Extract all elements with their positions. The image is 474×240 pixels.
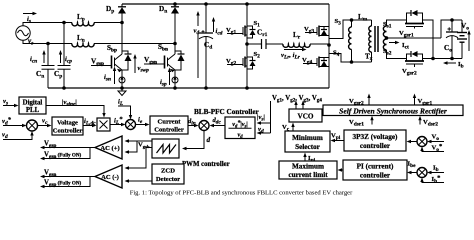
svg-text:Vdsr2: Vdsr2 — [423, 119, 438, 128]
svg-text:icd: icd — [216, 28, 223, 37]
capacitor Cr1 — [262, 39, 267, 49]
block PI current controller — [343, 160, 407, 180]
label Voltage Controller — [53, 120, 83, 135]
capacitor Co — [446, 20, 458, 59]
summer vd — [27, 120, 38, 131]
capacitor Cn — [42, 44, 55, 89]
svg-text:S1: S1 — [254, 20, 261, 29]
arrow vLr iLr — [284, 48, 307, 51]
summer Ib — [417, 168, 427, 178]
wire bridge leg A — [246, 4, 248, 88]
svg-text:|vsine|: |vsine| — [62, 99, 77, 108]
arrow vswp — [133, 54, 136, 73]
svg-text:Vo: Vo — [432, 134, 440, 143]
svg-text:controller: controller — [360, 142, 391, 150]
transistor S3 (MOSFET) — [305, 26, 329, 37]
junction dots output — [431, 18, 454, 60]
svg-text:vs: vs — [28, 37, 33, 47]
arrow 3P3Z to MinSel — [331, 139, 345, 143]
label Current Controller — [154, 119, 184, 134]
arrow Vgsr1 up — [413, 94, 416, 105]
arrow Ict — [389, 41, 400, 45]
diode S3 body — [321, 27, 327, 36]
wire Cr1 to Lr — [266, 43, 283, 45]
arrow Vdsr2 into SDSR — [418, 116, 421, 125]
transistor S1 (MOSFET) — [227, 26, 247, 37]
svg-text:Lp: Lp — [77, 13, 85, 23]
wire AC plus out Vgsn fully on — [40, 148, 90, 161]
block feedforward divider — [225, 117, 255, 139]
svg-text:vd: vd — [194, 28, 200, 37]
svg-text:Detector: Detector — [156, 176, 180, 183]
transformer Tx primary — [369, 20, 372, 62]
svg-text:Ln: Ln — [77, 34, 85, 44]
svg-text:3P3Z (voltage): 3P3Z (voltage) — [353, 133, 399, 141]
svg-text:Co: Co — [444, 44, 452, 54]
arrow Vdsr1 into SDSR — [370, 116, 373, 125]
transistor S2 (MOSFET) — [227, 57, 247, 68]
arrow is — [23, 12, 37, 16]
svg-text:AC (+): AC (+) — [100, 145, 119, 152]
ground — [118, 86, 126, 95]
svg-text:BLB-PFC Controller: BLB-PFC Controller — [194, 108, 260, 116]
transistor Sbn (IGBT) — [165, 51, 176, 77]
svg-text:Sbp: Sbp — [107, 44, 117, 54]
label divider fraction — [229, 119, 252, 140]
svg-text:S2: S2 — [254, 51, 261, 60]
wire primary bottom link — [329, 54, 372, 63]
bottom DC rail — [48, 87, 329, 89]
wire gate Sbp — [91, 65, 112, 67]
svg-text:current limit: current limit — [288, 171, 328, 179]
inductor Lp — [72, 23, 94, 26]
summer d — [199, 121, 209, 131]
svg-text:Vg1: Vg1 — [226, 27, 236, 36]
node midpoint A dot — [245, 42, 249, 46]
inductor Ln — [72, 44, 94, 47]
arrows VCO outputs — [294, 101, 304, 109]
comparator AC minus — [95, 165, 122, 188]
diode Sbp body — [122, 51, 132, 70]
svg-text:isp: isp — [160, 79, 167, 88]
wire d to PWM — [182, 131, 204, 151]
wire center tap riser to plus rail — [441, 20, 462, 38]
svg-text:Cp: Cp — [54, 70, 62, 80]
label Minimum Selector — [292, 134, 323, 151]
wire secondary bottom tap — [387, 50, 407, 59]
svg-text:Ibe: Ibe — [408, 161, 417, 170]
arrow Ib fb — [427, 171, 444, 175]
diode Ss2 body — [407, 51, 423, 59]
svg-text:Vg3: Vg3 — [304, 26, 314, 35]
arrow iL ref — [110, 123, 126, 127]
transistor Sbp (IGBT) — [112, 51, 123, 77]
svg-text:Lr: Lr — [293, 31, 301, 41]
svg-text:Vg2: Vg2 — [226, 58, 236, 67]
arrow summer to 3P3Z — [407, 140, 418, 144]
svg-text:Ib: Ib — [433, 165, 439, 174]
svg-text:Minimum: Minimum — [292, 134, 323, 142]
svg-text:d: d — [207, 136, 211, 144]
block Digital PLL — [19, 97, 46, 114]
arrow Vgsr2 up — [367, 94, 370, 105]
transistor Ss2 (sync MOSFET) — [405, 59, 424, 68]
wire primary top link — [329, 20, 372, 39]
wire AC minus out Vgsp fully on — [40, 177, 90, 189]
svg-text:is: is — [27, 16, 31, 25]
svg-text:Current: Current — [158, 119, 182, 126]
block 3P3Z voltage controller — [344, 130, 406, 151]
svg-text:Fig. 1: Topology of PFC-BLB an: Fig. 1: Topology of PFC-BLB and synchron… — [130, 190, 353, 197]
svg-text:Lm: Lm — [358, 13, 368, 23]
arrow ddc — [210, 124, 225, 128]
wire secondary bottom rail — [423, 58, 463, 60]
wire ZCD out to AC minus — [125, 179, 153, 183]
wire center tap — [387, 37, 442, 39]
svg-text:Vg4: Vg4 — [302, 57, 312, 66]
svg-text:Vg1, Vg2, Vg3, Vg4: Vg1, Vg2, Vg3, Vg4 — [272, 95, 322, 104]
wire PWM out to AC plus — [125, 139, 153, 154]
block VCO — [289, 109, 322, 122]
diode S1 body — [247, 26, 256, 38]
wire node P down to Sbp — [121, 23, 123, 52]
wire row2 after Ln to node N — [94, 43, 175, 45]
svg-text:vLr, iLr: vLr, iLr — [281, 52, 301, 61]
label Co plus — [448, 27, 451, 30]
svg-text:Cr1: Cr1 — [257, 29, 268, 39]
wire vd fb — [3, 131, 34, 140]
summer Vo — [417, 137, 427, 147]
block Current Controller — [150, 116, 188, 134]
svg-text:icn: icn — [30, 56, 37, 65]
transformer Tx core — [375, 26, 378, 52]
top DC rail — [122, 3, 329, 5]
arrow icp — [59, 50, 62, 63]
arrow PI to Max — [338, 168, 344, 172]
arrow vc — [38, 124, 52, 128]
node A junction dot — [62, 21, 66, 25]
comparator AC plus — [95, 136, 122, 159]
node P junction dot — [120, 21, 124, 25]
svg-text:Dn: Dn — [159, 5, 167, 15]
arrow Max to MinSel — [303, 153, 306, 161]
arrow vd ref — [3, 124, 27, 128]
svg-text:S3: S3 — [335, 18, 342, 27]
arrow vd — [196, 11, 199, 78]
arrow ie — [136, 123, 150, 127]
wire Lr to midpoint B — [310, 43, 329, 45]
svg-text:Self Driven Synchronous Rectif: Self Driven Synchronous Rectifier — [339, 106, 448, 115]
wire iL fb — [118, 106, 132, 120]
arrow isp — [168, 68, 171, 86]
node N junction dot — [173, 42, 177, 46]
wire Ib ref — [420, 178, 444, 183]
label ZCD Detector — [156, 168, 180, 184]
wire bridge leg B — [328, 4, 330, 88]
label 3P3Z controller — [353, 133, 399, 150]
wire AC plus out Vgsp — [40, 146, 95, 150]
wire PLL to multiplier — [46, 106, 106, 118]
node midpoint B dot — [327, 43, 331, 47]
current sensor isn — [119, 76, 125, 88]
inductor Lr — [283, 44, 310, 47]
inductor Lm — [349, 20, 352, 62]
svg-text:Ict: Ict — [402, 42, 409, 51]
transformer Tx secondary — [383, 26, 386, 50]
svg-text:vd: vd — [2, 132, 8, 141]
wire source top to row1 — [23, 23, 72, 26]
diode S2 body — [247, 57, 256, 69]
transistor S4 (MOSFET) — [303, 57, 329, 68]
svg-text:PLL: PLL — [26, 107, 40, 114]
svg-text:ie: ie — [138, 117, 143, 126]
diode Dn — [171, 4, 179, 44]
wire source bottom to row2 — [23, 40, 72, 43]
wire Vo ref — [420, 147, 444, 152]
junction dots Lm — [350, 18, 354, 64]
svg-text:Controller: Controller — [53, 128, 83, 135]
junction dots bottom rail — [62, 86, 249, 90]
svg-text:Cd: Cd — [204, 41, 212, 51]
wire PWM out2 to AC minus — [125, 148, 153, 170]
block Maximum current limit — [279, 161, 337, 179]
diode Ss1 body — [407, 10, 423, 20]
svg-text:AC (-): AC (-) — [101, 174, 119, 181]
transistor Ss1 (sync MOSFET) — [405, 20, 424, 29]
arrow iLdc — [83, 124, 97, 128]
svg-text:ZCD: ZCD — [161, 168, 175, 175]
svg-text:Ss2: Ss2 — [383, 48, 392, 57]
multiplier block — [97, 118, 110, 131]
svg-text:Controller: Controller — [154, 127, 184, 134]
wire midpoint A to Cr1 — [247, 43, 262, 45]
svg-text:PWM controller: PWM controller — [182, 161, 230, 168]
summer iL — [126, 120, 136, 130]
svg-text:Maximum: Maximum — [292, 163, 324, 171]
svg-text:icp: icp — [65, 56, 72, 65]
svg-text:isn: isn — [104, 74, 111, 83]
svg-text:Ib: Ib — [458, 61, 464, 70]
svg-text:controller: controller — [360, 172, 391, 180]
block PWM comparator — [152, 139, 179, 158]
wire gate Sbn — [144, 63, 165, 65]
node center tap dot — [385, 36, 389, 40]
arrow din — [188, 124, 199, 128]
svg-text:vswp: vswp — [138, 65, 150, 74]
arrow vs into PLL — [3, 104, 19, 108]
arrow vd div — [257, 131, 271, 135]
label PI controller — [357, 163, 394, 180]
arrow summer to PI — [407, 171, 417, 175]
svg-text:PI (current): PI (current) — [357, 163, 394, 171]
svg-text:Digital: Digital — [23, 100, 43, 107]
wire Ss1 to minus rail — [423, 20, 434, 59]
wire secondary top tap — [387, 20, 407, 26]
arrow vs abs — [257, 121, 271, 125]
svg-text:Vdsr1: Vdsr1 — [349, 119, 364, 128]
svg-text:VCO: VCO — [298, 113, 314, 121]
svg-text:Ss1: Ss1 — [383, 21, 392, 30]
battery Vbat — [457, 20, 467, 59]
label Maximum current limit — [288, 163, 328, 180]
arrow icn — [42, 50, 45, 63]
current sensor isp — [172, 76, 178, 88]
junction dots top rail — [173, 2, 249, 6]
label Cd plus — [202, 30, 205, 33]
diode S4 body — [321, 58, 327, 67]
svg-text:Cn: Cn — [36, 70, 44, 80]
svg-text:Selector: Selector — [295, 143, 321, 151]
block SDSR — [323, 105, 463, 116]
wire Cp branch vertical — [63, 23, 65, 66]
diode Sbn body — [175, 51, 185, 70]
block Minimum Selector — [285, 131, 330, 152]
arrow Vo fb — [427, 140, 444, 144]
label Digital PLL — [23, 100, 43, 115]
AC source vs — [16, 26, 30, 40]
arrow isn — [113, 67, 116, 85]
node B junction dot — [46, 42, 50, 46]
svg-text:Dp: Dp — [106, 5, 114, 15]
wire AC minus out Vgsn — [40, 175, 95, 179]
svg-text:Sbn: Sbn — [158, 43, 168, 53]
arrow Ibat — [443, 61, 456, 65]
arrow Vo — [467, 30, 470, 51]
capacitor Cd — [199, 4, 213, 88]
capacitor Cp — [58, 66, 71, 89]
block Voltage Controller — [52, 117, 83, 135]
wire row1 after Lp to node P — [94, 22, 122, 24]
arrow Vc into VCO — [291, 123, 294, 131]
wire node N down to Sbn — [174, 44, 176, 52]
svg-text:Voltage: Voltage — [57, 120, 78, 127]
svg-text:Vgsr1: Vgsr1 — [399, 30, 414, 39]
arrow icd — [212, 17, 215, 32]
block ZCD Detector — [152, 164, 184, 184]
svg-text:Vgsr2: Vgsr2 — [402, 68, 417, 77]
wire sense riser — [270, 101, 272, 133]
diode Dp — [118, 4, 126, 23]
